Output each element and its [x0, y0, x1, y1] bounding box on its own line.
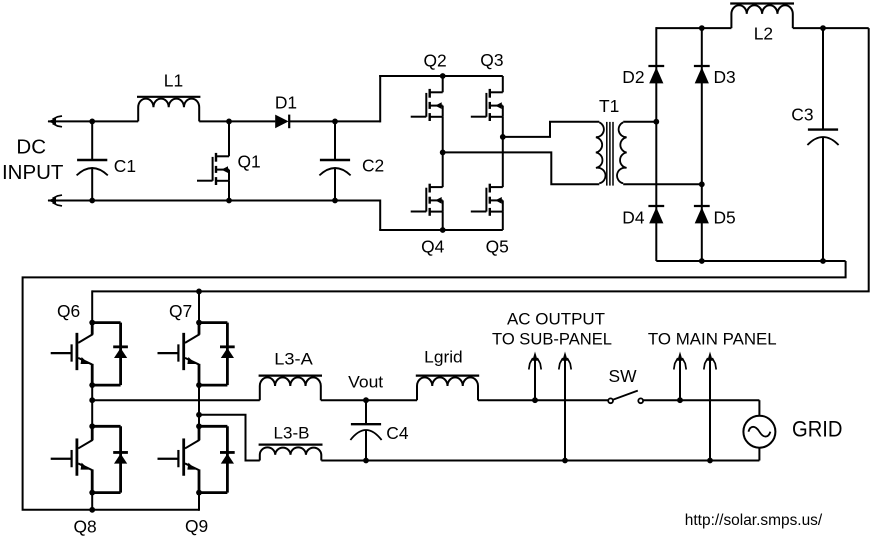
svg-text:AC OUTPUT: AC OUTPUT — [507, 310, 605, 328]
label Q5 — [486, 236, 509, 256]
node Q7 collector — [196, 320, 202, 326]
wire Q4 drain — [442, 152, 444, 187]
svg-text:DC: DC — [16, 136, 46, 159]
svg-text:D5: D5 — [714, 207, 736, 227]
node H-bridge bus at Q7 — [196, 289, 202, 295]
label D1 — [275, 92, 297, 112]
node Q9 collector — [196, 423, 202, 429]
wire Q5 source — [502, 212, 504, 230]
label D3 — [714, 67, 736, 87]
inductor L2 — [730, 4, 794, 29]
transistor Q6 — [51, 323, 128, 386]
wire T1 secondary top — [623, 121, 656, 123]
node Vout — [363, 397, 369, 403]
label D2 — [622, 67, 644, 87]
label L2 — [754, 23, 773, 43]
wire Q2-Q4 midpoint to T1 primary bottom — [443, 152, 600, 184]
svg-text:Q8: Q8 — [74, 517, 97, 537]
node Q6 collector — [89, 320, 95, 326]
svg-text:Q7: Q7 — [169, 301, 192, 321]
wire D2-D4 column — [655, 27, 657, 261]
label TO SUB-PANEL — [492, 330, 612, 348]
transistor Q1 — [197, 153, 229, 185]
node C1 top — [89, 119, 95, 125]
label Q8 — [74, 517, 97, 537]
node Q2 drain bus — [440, 73, 446, 79]
DC input arrow (positive rail) — [48, 116, 63, 127]
wire Lgrid to switch — [478, 399, 608, 401]
label D4 — [622, 207, 645, 227]
svg-text:GRID: GRID — [792, 417, 843, 442]
label T1 — [599, 96, 619, 116]
label Q3 — [480, 50, 503, 70]
node Q1 source — [226, 198, 232, 204]
node bottom rail at D5 — [699, 258, 705, 264]
wire Q6-Q8 midpoint — [91, 385, 93, 426]
transistor Q9 — [158, 426, 235, 492]
label DC INPUT — [2, 136, 64, 185]
switch SW — [608, 391, 643, 404]
wire grid drop — [758, 400, 760, 416]
wire phase A to L3-A — [92, 399, 260, 401]
wire switch to grid corner — [643, 399, 759, 401]
svg-text:TO MAIN PANEL: TO MAIN PANEL — [648, 330, 777, 348]
wire Q4 source — [442, 212, 444, 230]
svg-text:L3-A: L3-A — [274, 349, 313, 368]
svg-text:D3: D3 — [714, 67, 736, 87]
svg-text:INPUT: INPUT — [2, 161, 64, 184]
node C4 bottom — [363, 458, 369, 464]
transistor Q8 — [51, 426, 128, 492]
node bottom bus at Q8 — [89, 507, 95, 513]
wire Q2 source to midpoint — [442, 117, 444, 153]
wire bridge negative bus — [379, 229, 503, 231]
svg-text:Q9: Q9 — [185, 516, 208, 536]
node Q1 drain / L1 out — [226, 119, 232, 125]
inductor L3-B — [259, 445, 323, 461]
node secondary bottom / D3-D5 junction — [699, 181, 705, 187]
wire T1 secondary bottom — [623, 183, 702, 185]
transformer T1 — [596, 122, 627, 186]
svg-text:L2: L2 — [754, 23, 773, 43]
transistor Q4 — [411, 184, 443, 216]
transistor Q7 — [158, 323, 235, 386]
svg-text:C4: C4 — [386, 423, 409, 443]
svg-text:Lgrid: Lgrid — [424, 347, 463, 366]
wire negative wrap link — [23, 261, 846, 510]
node Q6 emitter — [89, 382, 95, 388]
node phase B tap — [196, 412, 202, 418]
svg-text:Q4: Q4 — [421, 236, 445, 256]
label SW — [608, 366, 637, 386]
capacitor C2 — [319, 121, 350, 200]
node phase A tap — [89, 397, 95, 403]
wire Q5 drain — [502, 137, 504, 187]
node secondary top / D2-D4 junction — [653, 119, 659, 125]
wire Q8 emitter to bus — [91, 493, 93, 510]
node main-panel line tap — [677, 397, 683, 403]
node C3 bottom — [820, 258, 826, 264]
svg-text:Q5: Q5 — [486, 236, 509, 256]
label D5 — [714, 207, 736, 227]
transistor Q5 — [471, 184, 503, 216]
label Vout — [348, 372, 383, 391]
diode D2 — [648, 66, 664, 83]
wire Q7-Q9 midpoint — [198, 385, 200, 426]
diode D5 — [694, 206, 710, 223]
svg-text:http://solar.smps.us/: http://solar.smps.us/ — [685, 512, 823, 529]
wire top rail L2 to corner — [793, 27, 869, 29]
label Q4 — [421, 236, 445, 256]
label Q6 — [57, 301, 80, 321]
node C2 top — [332, 119, 338, 125]
svg-text:Vout: Vout — [348, 372, 383, 391]
label C3 — [791, 105, 813, 125]
DC input arrow (negative rail) — [48, 195, 63, 206]
label L1 — [164, 71, 183, 91]
node Q8 emitter — [89, 490, 95, 496]
svg-text:C3: C3 — [791, 105, 813, 125]
node top rail at D3 — [699, 25, 705, 31]
label C4 — [386, 423, 409, 443]
label AC OUTPUT — [507, 310, 605, 328]
wire input negative rail — [48, 200, 380, 202]
wire Q1 drain — [228, 121, 230, 156]
transistor Q2 — [411, 89, 443, 121]
wire positive link down right edge — [92, 28, 869, 291]
source GRID — [743, 416, 775, 461]
capacitor C3 — [807, 28, 838, 261]
label L3-B — [274, 424, 310, 443]
node sub-panel line tap — [532, 397, 538, 403]
label C1 — [114, 156, 136, 176]
wire Q3 drain — [502, 76, 504, 92]
wire Q7 collector riser — [198, 291, 200, 322]
node C3 top — [820, 25, 826, 31]
wire bottom output — [321, 460, 759, 462]
svg-text:Q1: Q1 — [238, 152, 261, 172]
wire rectifier bottom rail — [656, 260, 845, 262]
node sub-panel neutral tap — [562, 458, 568, 464]
inductor Lgrid — [416, 376, 479, 401]
wire C2 to bridge top — [335, 75, 380, 122]
sub-panel arrow line — [529, 352, 541, 401]
label Q7 — [169, 301, 192, 321]
inductor L3-A — [259, 376, 322, 401]
wire D1 cathode to C2 — [289, 120, 335, 122]
inductor L1 — [137, 97, 200, 122]
node Q4 source bus — [440, 227, 446, 233]
node Q3-Q5 midpoint — [500, 134, 506, 140]
label TO MAIN PANEL — [648, 330, 777, 348]
label Q2 — [424, 50, 447, 70]
label Q9 — [185, 516, 208, 536]
capacitor C4 — [350, 400, 381, 460]
wire D3-D5 column — [701, 28, 703, 261]
sub-panel arrow neutral — [559, 352, 571, 461]
transistor Q3 — [471, 89, 503, 121]
wire Q1 source — [228, 181, 230, 201]
svg-text:L3-B: L3-B — [274, 424, 310, 443]
svg-text:T1: T1 — [599, 96, 619, 116]
svg-text:TO SUB-PANEL: TO SUB-PANEL — [492, 330, 612, 348]
wire bridge positive bus — [379, 75, 503, 77]
svg-text:Q6: Q6 — [57, 301, 80, 321]
main-panel arrow line — [674, 352, 686, 401]
svg-text:C1: C1 — [114, 156, 136, 176]
diode D1 — [275, 115, 289, 129]
node main-panel neutral tap — [707, 458, 713, 464]
label L3-A — [274, 349, 313, 368]
node Q9 emitter — [196, 490, 202, 496]
svg-text:Q2: Q2 — [424, 50, 447, 70]
wire bridge negative drop — [379, 200, 381, 231]
main-panel arrow neutral — [704, 352, 716, 461]
node C2 bottom — [332, 198, 338, 204]
wire Q9 emitter to bus — [198, 493, 200, 511]
wire Q2 drain — [442, 76, 444, 92]
node Q7 emitter — [196, 382, 202, 388]
svg-text:L1: L1 — [164, 71, 183, 91]
label Q1 — [238, 152, 261, 172]
diode D4 — [648, 206, 664, 223]
wire L3-A to Lgrid — [321, 399, 417, 401]
wire Q3 source to midpoint — [502, 117, 504, 137]
svg-text:SW: SW — [608, 366, 637, 386]
label C2 — [362, 156, 384, 176]
node C1 bottom — [89, 198, 95, 204]
wire rectifier top rail — [656, 27, 731, 29]
svg-text:Q3: Q3 — [480, 50, 503, 70]
node Q2-Q4 midpoint — [440, 150, 446, 156]
wire Q6 collector riser — [91, 290, 93, 322]
wire input positive rail — [48, 120, 275, 122]
diode D3 — [694, 66, 710, 83]
label Lgrid — [424, 347, 463, 366]
label GRID — [792, 417, 843, 442]
capacitor C1 — [77, 121, 108, 200]
wire phase B to L3-B — [199, 415, 260, 461]
svg-text:C2: C2 — [362, 156, 384, 176]
node Q8 collector — [89, 423, 95, 429]
label site url — [685, 512, 823, 529]
wire Q3-Q5 midpoint to T1 primary top — [503, 122, 600, 137]
svg-text:D2: D2 — [622, 67, 644, 87]
svg-text:D1: D1 — [275, 92, 297, 112]
svg-text:D4: D4 — [622, 207, 645, 227]
